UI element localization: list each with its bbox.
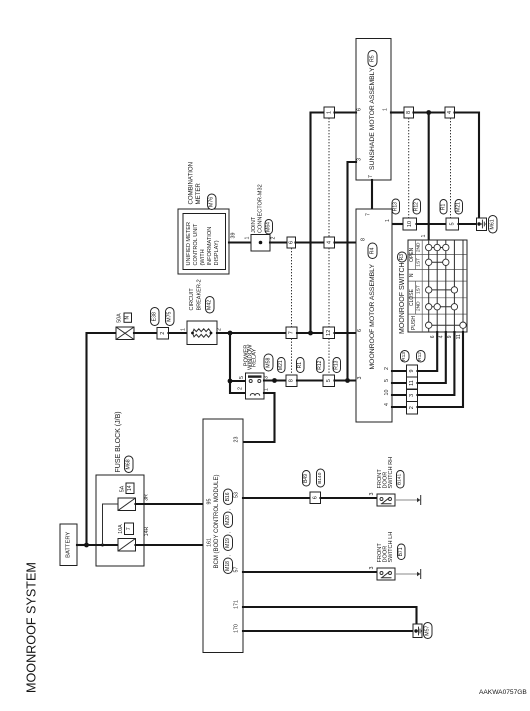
svg-text:CIRCUIT: CIRCUIT: [189, 288, 195, 311]
svg-text:1ST: 1ST: [415, 258, 421, 267]
svg-text:10A: 10A: [118, 524, 124, 534]
svg-text:1ST: 1ST: [415, 285, 421, 294]
svg-text:,: ,: [226, 555, 232, 556]
connector 12 (R12/R13): [323, 327, 335, 339]
node pin3 junction: [272, 378, 277, 383]
svg-text:B49: B49: [303, 474, 309, 483]
svg-text:6: 6: [357, 329, 363, 332]
svg-text:R5: R5: [370, 55, 376, 62]
svg-text:4: 4: [447, 111, 453, 114]
wire breaker to node A: [217, 332, 286, 334]
svg-text:R12: R12: [317, 360, 323, 369]
svg-text:JOINT: JOINT: [251, 216, 257, 233]
connector label M18: [224, 558, 233, 574]
connector label B71: [398, 544, 406, 560]
svg-text:161: 161: [207, 538, 213, 547]
svg-text:PUSH: PUSH: [411, 316, 417, 330]
svg-text:R13: R13: [334, 360, 340, 369]
connector 6 (M21/R1 row): [287, 237, 296, 248]
svg-text:MOONROOF SYSTEM: MOONROOF SYSTEM: [25, 562, 39, 693]
ground wire LH: [395, 573, 418, 575]
wire battery feed riser: [87, 333, 117, 545]
svg-text:N: N: [125, 315, 131, 319]
wire connector 5 to moonroof motor pin3: [335, 379, 357, 381]
connector label R13: [392, 199, 400, 214]
svg-text:OPEN: OPEN: [409, 247, 415, 262]
dotted connector line 8-10: [408, 118, 410, 218]
connector label B49: [303, 471, 311, 487]
joint connector-M32 M64: [251, 235, 270, 252]
connector 7 (M21/R1): [286, 327, 297, 339]
connector 5 (R1/M21): [446, 218, 459, 230]
svg-text:1: 1: [421, 234, 427, 237]
svg-text:AAKWA0757GB: AAKWA0757GB: [479, 689, 527, 696]
svg-text:M19: M19: [225, 538, 231, 548]
node battery junction: [84, 543, 89, 548]
dotted connector line 12-5: [328, 339, 330, 376]
svg-text:M76: M76: [209, 197, 215, 207]
svg-text:M64: M64: [266, 222, 272, 232]
wire connector 4 to moonroof motor pin8: [335, 241, 357, 243]
connector 8 (M21/R1): [286, 375, 297, 387]
svg-text:3: 3: [409, 394, 415, 397]
connector label M19: [224, 535, 233, 551]
svg-text:CONNECTOR-M32: CONNECTOR-M32: [258, 184, 264, 233]
wire fuse branch riser: [103, 504, 119, 545]
svg-text:7: 7: [126, 527, 132, 530]
switch contacts row OPEN 1ST: [429, 261, 446, 263]
wire relay pin3 to connector 8: [264, 379, 286, 381]
svg-text:MOONROOF MOTOR ASSEMBLY: MOONROOF MOTOR ASSEMBLY: [369, 264, 376, 370]
wire motor pin10 to connector 3: [392, 394, 407, 396]
svg-text:9: 9: [409, 369, 415, 372]
svg-text:1: 1: [383, 108, 389, 111]
dotted connector line 4-12: [328, 248, 330, 327]
battery: [60, 524, 77, 566]
svg-text:M42: M42: [207, 300, 213, 310]
table contact columns: [429, 240, 463, 332]
svg-text:R13: R13: [401, 352, 407, 361]
svg-text:INFORMATION: INFORMATION: [207, 227, 213, 266]
wire BCM pin53 to front door switch RH: [243, 497, 310, 499]
switch contacts row CLOSE 2ND: [429, 306, 455, 308]
connector 8 top (R13/R12): [404, 107, 414, 118]
svg-text:3R: 3R: [144, 494, 150, 501]
svg-text:5: 5: [449, 222, 455, 225]
svg-text:M61: M61: [490, 219, 496, 229]
svg-text:RELAY: RELAY: [252, 348, 258, 367]
moonroof switch table frame: [408, 240, 467, 332]
wire connector 5 to ground M61: [459, 223, 477, 225]
svg-text:N: N: [409, 273, 415, 277]
BCM body control module box: [203, 419, 243, 653]
svg-text:M68: M68: [126, 459, 132, 469]
connector label M61: [489, 216, 498, 234]
svg-text:2: 2: [160, 332, 166, 335]
circuit breaker-2 box: [187, 321, 217, 345]
connector label M42: [206, 297, 215, 314]
svg-text:6: 6: [312, 496, 318, 499]
svg-text:6: 6: [288, 241, 294, 244]
svg-text:8: 8: [406, 111, 412, 114]
svg-text:DISPLAY): DISPLAY): [214, 240, 220, 265]
connector 2: [407, 402, 418, 415]
svg-text:53: 53: [234, 492, 240, 498]
node B junction: [308, 331, 313, 336]
connector label R12: [413, 199, 421, 214]
wire motor pin4 to connector 2: [392, 406, 407, 408]
svg-text:M20: M20: [225, 515, 231, 525]
svg-text:50A: 50A: [117, 313, 123, 323]
connector 10 (R13/R12): [403, 218, 417, 230]
switch contacts row OPEN 2ND: [429, 247, 446, 249]
svg-text:3: 3: [369, 566, 375, 569]
svg-text:FUSE BLOCK (J/B): FUSE BLOCK (J/B): [115, 411, 122, 472]
wire sunshade pin7 to motor pin7: [371, 180, 373, 209]
connector label M76: [208, 194, 217, 210]
svg-text:170: 170: [234, 624, 240, 633]
wire connector 1 to sunshade pin6: [335, 111, 357, 113]
front door switch LH B71: [377, 568, 395, 580]
svg-text:CONTROL UNIT: CONTROL UNIT: [193, 223, 199, 265]
svg-text:E38: E38: [152, 312, 158, 321]
svg-text:3: 3: [357, 158, 363, 161]
dotted connector line 7-8: [291, 339, 293, 376]
connector label R12: [417, 351, 426, 363]
connector 1: [324, 107, 335, 118]
wire BCM pin57 to front door switch LH: [243, 571, 377, 573]
wire meter pin39 to joint connector: [229, 241, 251, 243]
dotted connector line 4-5: [450, 118, 452, 218]
dotted connector line 6-7: [291, 248, 293, 327]
node D junction: [426, 110, 431, 115]
svg-text:MOONROOF SWITCH: MOONROOF SWITCH: [399, 262, 406, 334]
svg-text:3: 3: [264, 376, 270, 379]
connector label R4: [368, 243, 377, 259]
svg-text:5: 5: [384, 379, 390, 382]
svg-text:R12: R12: [417, 352, 423, 361]
svg-text:B140: B140: [317, 472, 323, 484]
svg-text:5: 5: [239, 376, 245, 379]
svg-text:(WITH: (WITH: [200, 249, 206, 265]
svg-text:SWITCH LH: SWITCH LH: [388, 532, 394, 563]
svg-text:SUNSHADE MOTOR ASSEMBLY: SUNSHADE MOTOR ASSEMBLY: [369, 67, 376, 170]
switch contacts row CLOSE 1ST: [429, 289, 455, 291]
svg-text:12: 12: [326, 330, 332, 336]
svg-text:8: 8: [361, 238, 367, 241]
connector 11: [407, 377, 418, 389]
connector label B141: [397, 471, 405, 489]
node relay feed junction: [228, 379, 233, 384]
connector label B140: [317, 469, 325, 487]
wire feed to moonroof switch: [428, 113, 430, 241]
svg-text:14: 14: [127, 485, 133, 491]
svg-text:1: 1: [181, 328, 187, 331]
svg-text:2: 2: [384, 367, 390, 370]
ground M57: [413, 624, 422, 638]
svg-text:11: 11: [409, 380, 415, 386]
wire sunshade pin6 via connector 1: [311, 113, 325, 334]
switch contacts row PUSH: [429, 324, 463, 326]
svg-text:M57: M57: [425, 626, 431, 636]
svg-text:4: 4: [384, 403, 390, 406]
wire sunshade pin3 down: [348, 162, 357, 381]
svg-text:1: 1: [245, 236, 251, 239]
node C junction: [345, 378, 350, 383]
svg-text:7: 7: [289, 331, 295, 334]
connector 3: [407, 390, 418, 402]
svg-text:23: 23: [234, 437, 240, 443]
connector label M57: [424, 623, 433, 639]
svg-text:BCM (BODY CONTROL MODULE): BCM (BODY CONTROL MODULE): [214, 474, 220, 568]
svg-text:SWITCH RH: SWITCH RH: [388, 457, 394, 489]
svg-text:5: 5: [326, 379, 332, 382]
wire 3R fuse to BCM pin95: [136, 503, 204, 505]
wire into fuse block: [87, 544, 119, 546]
wire connector 6 to switch RH: [321, 497, 378, 499]
wire 14R fuse to BCM pin161: [136, 544, 204, 546]
svg-text:2ND: 2ND: [415, 301, 421, 311]
wire connector 2 to switch pin11: [418, 332, 464, 407]
svg-text:10: 10: [407, 221, 413, 227]
svg-text:95: 95: [207, 499, 213, 505]
wire sunshade pin1 to connector 8: [391, 111, 404, 113]
svg-text:9: 9: [447, 335, 453, 338]
svg-text:6: 6: [357, 108, 363, 111]
wire fusible link to connector 2: [134, 332, 157, 334]
svg-text:M21: M21: [278, 360, 284, 370]
connector 9 (R13/R12): [407, 365, 418, 377]
svg-text:CLOSE: CLOSE: [409, 288, 415, 306]
connector label R13: [401, 351, 410, 363]
svg-text:1: 1: [264, 388, 270, 391]
svg-text:6: 6: [430, 335, 436, 338]
connector label B16: [224, 489, 233, 505]
fuse 10A 7: [118, 539, 136, 552]
svg-text:2ND: 2ND: [415, 242, 421, 252]
svg-text:B141: B141: [397, 474, 403, 486]
wire node A down to relay: [230, 333, 246, 393]
svg-text:14R: 14R: [144, 526, 150, 536]
svg-text:,: ,: [226, 509, 232, 510]
svg-text:UNIFIED METER: UNIFIED METER: [186, 222, 192, 266]
wire connector 2 to circuit breaker: [169, 332, 188, 334]
svg-text:2: 2: [271, 236, 277, 239]
svg-text:BATTERY: BATTERY: [66, 532, 72, 558]
svg-text:R12: R12: [414, 202, 420, 211]
svg-text:,: ,: [226, 532, 232, 533]
combination meter M76 box: [178, 209, 229, 274]
svg-text:4: 4: [326, 241, 332, 244]
svg-text:R1: R1: [297, 362, 303, 369]
wire connector 10 to connector 5: [417, 223, 447, 225]
wire connector 3 to switch pin9: [418, 332, 455, 395]
svg-text:B16: B16: [225, 492, 231, 501]
connector 4 (R12/R13 row): [324, 237, 335, 248]
wire connector 7 to node B: [297, 332, 323, 334]
table label separators: [415, 240, 422, 332]
svg-text:2: 2: [217, 328, 223, 331]
svg-text:2: 2: [409, 406, 415, 409]
connector label R1: [440, 200, 447, 215]
svg-text:M21: M21: [456, 202, 462, 212]
connector label M75: [166, 308, 175, 326]
svg-text:M75: M75: [167, 312, 173, 322]
svg-text:1: 1: [326, 111, 332, 114]
wire motor pin2 to connector 9: [392, 370, 407, 372]
power window relay M58: [246, 373, 265, 399]
connector label M68: [125, 456, 134, 473]
table row lines: [408, 255, 467, 315]
wire connector 4 to ground M61: [455, 113, 480, 219]
node A junction: [228, 331, 233, 336]
svg-text:COMBINATION: COMBINATION: [188, 162, 195, 205]
wire connector 9 to switch pin6: [418, 332, 438, 371]
svg-text:171: 171: [234, 600, 240, 609]
svg-text:8: 8: [289, 379, 295, 382]
svg-text:2: 2: [238, 387, 244, 390]
svg-text:BREAKER-2: BREAKER-2: [197, 279, 203, 310]
svg-text:R1: R1: [441, 204, 447, 211]
wire motor pin5 to connector 11: [392, 382, 407, 384]
connector label E38: [151, 308, 160, 326]
fuse 5A 14: [118, 498, 136, 511]
front door switch RH B141: [377, 494, 395, 506]
svg-text:39: 39: [231, 233, 237, 239]
wire connector 6 to connector 4: [296, 241, 325, 243]
svg-text:R13: R13: [393, 202, 399, 211]
svg-text:1: 1: [385, 219, 391, 222]
svg-text:B71: B71: [398, 547, 404, 556]
fuse block (J/B) box: [96, 475, 144, 566]
connector label M64: [265, 220, 273, 235]
wire BCM pin170 to ground M57: [243, 630, 413, 632]
svg-text:M18: M18: [225, 561, 231, 571]
wire connector 8 to connector 5: [297, 379, 323, 381]
ground symbol LH: [417, 572, 420, 577]
svg-text:5A: 5A: [120, 485, 126, 492]
wire BCM pin171 to ground M57: [243, 607, 417, 624]
svg-text:3: 3: [369, 492, 375, 495]
wire connector 11 to switch pin4: [418, 332, 446, 383]
connector label R5: [368, 51, 377, 67]
connector 6 (B49/B140): [310, 492, 321, 504]
svg-text:M58: M58: [266, 358, 272, 368]
wire connector 8 to connector 4 top: [414, 111, 446, 113]
connector 5 (R12/R13): [323, 375, 335, 387]
svg-text:3: 3: [357, 376, 363, 379]
connector label R3: [398, 252, 407, 262]
svg-text:R3: R3: [399, 254, 405, 261]
wire relay pin1 to BCM pin23: [243, 393, 275, 442]
dotted connector line 1-4: [328, 118, 330, 237]
connector E38/M75 pin 2: [157, 328, 169, 340]
connector label R12: [317, 358, 325, 373]
ground M61: [477, 218, 487, 231]
connector label M58: [264, 354, 273, 371]
wire connector 12 to moonroof motor pin6: [335, 332, 357, 334]
connector label M21: [278, 358, 286, 373]
sunshade motor assembly R5 box: [356, 39, 391, 181]
fusible link 50A N: [116, 327, 134, 340]
svg-text:57: 57: [234, 567, 240, 573]
svg-text:7: 7: [368, 175, 374, 178]
wire moonroof motor pin1 to connector 10: [392, 223, 403, 225]
connector 4 top (R1/M21): [445, 107, 455, 118]
svg-text:R4: R4: [370, 248, 376, 255]
wire joint connector to connector 6: [270, 241, 287, 243]
node fuse branch: [101, 544, 104, 547]
svg-text:7: 7: [366, 213, 372, 216]
svg-text:10: 10: [384, 390, 390, 396]
svg-text:METER: METER: [195, 183, 202, 205]
svg-text:4: 4: [439, 335, 445, 338]
moonroof motor assembly R4 box: [356, 209, 392, 422]
connector label R13: [333, 358, 341, 373]
wire battery to junction: [77, 544, 87, 546]
connector label M20: [224, 512, 233, 528]
ground wire RH: [395, 499, 418, 501]
svg-text:11: 11: [456, 334, 462, 339]
ground symbol RH: [417, 498, 420, 503]
connector label M21: [455, 200, 463, 215]
connector label R1: [297, 358, 305, 373]
